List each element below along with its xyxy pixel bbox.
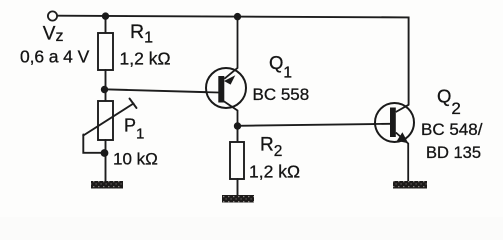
svg-text:10 kΩ: 10 kΩ [113, 150, 158, 169]
svg-text:BD 135: BD 135 [426, 144, 481, 162]
svg-text:BC 558: BC 558 [253, 85, 310, 104]
svg-text:BC 548/: BC 548/ [421, 120, 483, 139]
svg-text:1,2 kΩ: 1,2 kΩ [249, 162, 300, 182]
svg-text:1,2 kΩ: 1,2 kΩ [120, 49, 171, 69]
svg-text:0,6 a 4 V: 0,6 a 4 V [20, 47, 90, 67]
